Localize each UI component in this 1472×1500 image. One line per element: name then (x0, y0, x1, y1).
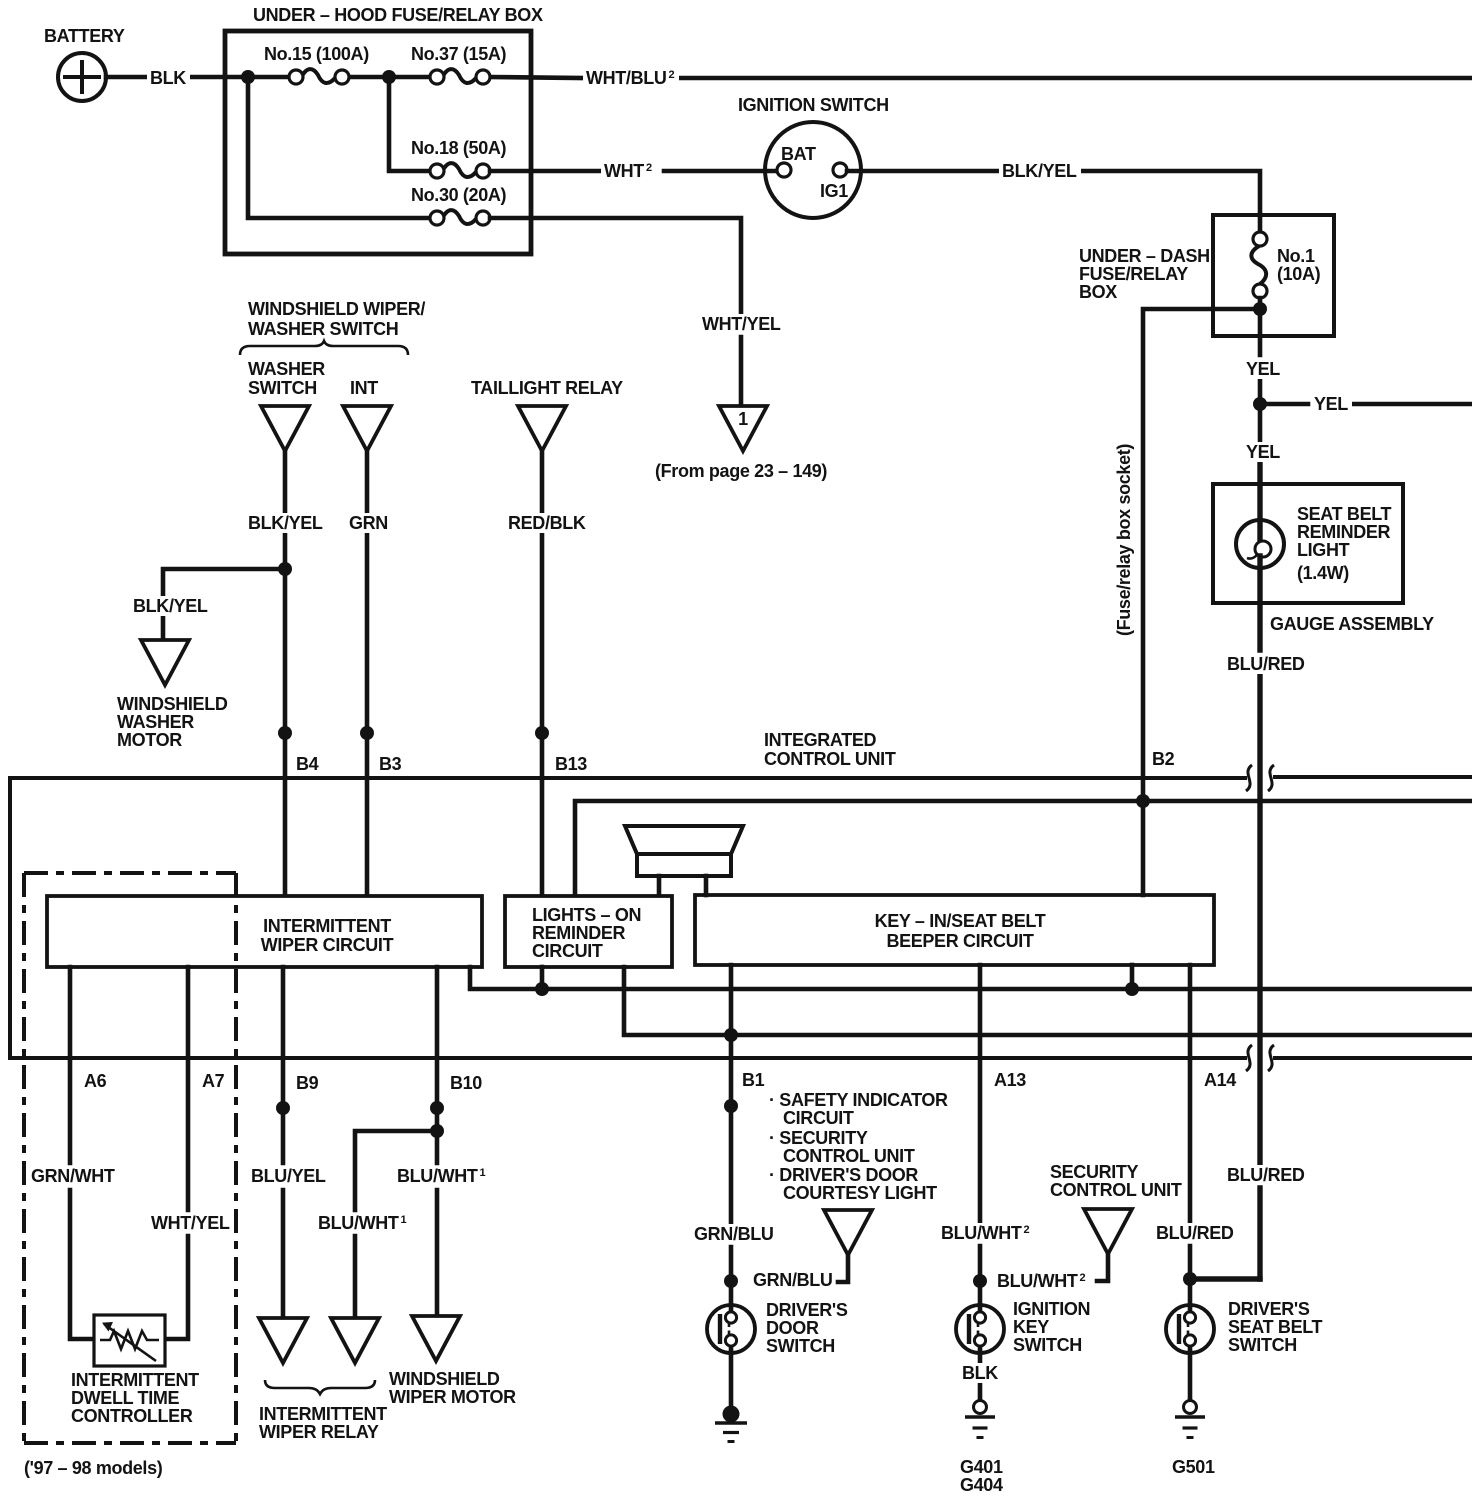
svg-text:WIPER MOTOR: WIPER MOTOR (389, 1387, 516, 1407)
svg-text:WIPER RELAY: WIPER RELAY (259, 1422, 379, 1442)
svg-text:G501: G501 (1172, 1457, 1215, 1477)
svg-text:YEL: YEL (1314, 394, 1348, 414)
svg-text:GRN/BLU: GRN/BLU (753, 1270, 833, 1290)
svg-text:(1.4W): (1.4W) (1297, 563, 1349, 583)
svg-text:YEL: YEL (1246, 359, 1280, 379)
svg-text:A13: A13 (994, 1070, 1026, 1090)
svg-text:IGNITION SWITCH: IGNITION SWITCH (738, 95, 889, 115)
svg-text:BLK/YEL: BLK/YEL (248, 513, 323, 533)
svg-text:IG1: IG1 (820, 181, 848, 201)
svg-text:BLU/WHT1: BLU/WHT1 (397, 1166, 486, 1186)
svg-text:TAILLIGHT RELAY: TAILLIGHT RELAY (471, 378, 623, 398)
svg-text:CONTROL UNIT: CONTROL UNIT (783, 1146, 915, 1166)
svg-text:SECURITY: SECURITY (1050, 1162, 1139, 1182)
svg-text:BLU/RED: BLU/RED (1156, 1223, 1234, 1243)
svg-text:WINDSHIELD: WINDSHIELD (117, 694, 228, 714)
svg-text:BLU/RED: BLU/RED (1227, 1165, 1305, 1185)
svg-text:WHT/YEL: WHT/YEL (151, 1213, 230, 1233)
svg-text:SEAT BELT: SEAT BELT (1297, 504, 1392, 524)
svg-text:WASHER: WASHER (248, 359, 325, 379)
svg-text:UNDER – DASH: UNDER – DASH (1079, 246, 1210, 266)
svg-text:BLK: BLK (150, 68, 186, 88)
svg-text:B4: B4 (296, 754, 319, 774)
svg-text:CIRCUIT: CIRCUIT (783, 1108, 854, 1128)
svg-text:FUSE/RELAY: FUSE/RELAY (1079, 264, 1188, 284)
svg-text:CONTROL UNIT: CONTROL UNIT (1050, 1180, 1182, 1200)
svg-text:BOX: BOX (1079, 282, 1117, 302)
svg-text:DOOR: DOOR (766, 1318, 819, 1338)
svg-text:WIPER CIRCUIT: WIPER CIRCUIT (261, 935, 394, 955)
svg-text:CONTROLLER: CONTROLLER (71, 1406, 193, 1426)
svg-text:INTERMITTENT: INTERMITTENT (259, 1404, 387, 1424)
svg-text:B10: B10 (450, 1073, 482, 1093)
svg-text:RED/BLK: RED/BLK (508, 513, 586, 533)
svg-text:REMINDER: REMINDER (1297, 522, 1391, 542)
svg-text:(From page 23 – 149): (From page 23 – 149) (655, 461, 827, 481)
svg-text:GRN/WHT: GRN/WHT (31, 1166, 115, 1186)
svg-text:BLU/RED: BLU/RED (1227, 654, 1305, 674)
svg-text:KEY – IN/SEAT BELT: KEY – IN/SEAT BELT (875, 911, 1046, 931)
svg-text:BLU/WHT2: BLU/WHT2 (997, 1271, 1086, 1291)
svg-text:DRIVER'S: DRIVER'S (766, 1300, 848, 1320)
svg-text:GRN/BLU: GRN/BLU (694, 1224, 774, 1244)
svg-text:YEL: YEL (1246, 442, 1280, 462)
svg-text:BATTERY: BATTERY (44, 26, 125, 46)
svg-text:MOTOR: MOTOR (117, 730, 182, 750)
svg-text:WHT/BLU2: WHT/BLU2 (586, 68, 675, 88)
svg-text:KEY: KEY (1013, 1317, 1049, 1337)
svg-text:INT: INT (350, 378, 378, 398)
svg-text:B13: B13 (555, 754, 587, 774)
svg-text:G401: G401 (960, 1457, 1003, 1477)
svg-text:BAT: BAT (781, 144, 816, 164)
svg-text:REMINDER: REMINDER (532, 923, 626, 943)
svg-text:G404: G404 (960, 1475, 1003, 1495)
svg-text:A7: A7 (202, 1071, 225, 1091)
svg-text:LIGHT: LIGHT (1297, 540, 1350, 560)
svg-text:DRIVER'S: DRIVER'S (1228, 1299, 1310, 1319)
svg-text:CONTROL UNIT: CONTROL UNIT (764, 749, 896, 769)
svg-text:WASHER SWITCH: WASHER SWITCH (248, 319, 398, 339)
svg-text:DWELL TIME: DWELL TIME (71, 1388, 180, 1408)
svg-text:· DRIVER'S DOOR: · DRIVER'S DOOR (769, 1165, 918, 1185)
svg-text:No.30 (20A): No.30 (20A) (411, 185, 507, 205)
svg-text:No.1: No.1 (1277, 246, 1315, 266)
svg-text:COURTESY LIGHT: COURTESY LIGHT (783, 1183, 937, 1203)
svg-text:B1: B1 (742, 1070, 765, 1090)
svg-text:SWITCH: SWITCH (766, 1336, 835, 1356)
svg-text:BLU/YEL: BLU/YEL (251, 1166, 326, 1186)
svg-text:GRN: GRN (349, 513, 388, 533)
svg-text:WHT/YEL: WHT/YEL (702, 314, 781, 334)
svg-text:WINDSHIELD: WINDSHIELD (389, 1369, 500, 1389)
svg-text:· SECURITY: · SECURITY (769, 1128, 868, 1148)
svg-text:(Fuse/relay box socket): (Fuse/relay box socket) (1114, 444, 1134, 636)
svg-text:CIRCUIT: CIRCUIT (532, 941, 603, 961)
svg-text:B9: B9 (296, 1073, 319, 1093)
svg-text:SEAT BELT: SEAT BELT (1228, 1317, 1323, 1337)
svg-text:GAUGE ASSEMBLY: GAUGE ASSEMBLY (1270, 614, 1434, 634)
svg-text:INTERMITTENT: INTERMITTENT (71, 1370, 199, 1390)
svg-text:No.15 (100A): No.15 (100A) (264, 44, 369, 64)
svg-text:(10A): (10A) (1277, 264, 1321, 284)
svg-text:BEEPER CIRCUIT: BEEPER CIRCUIT (886, 931, 1033, 951)
svg-text:BLU/WHT1: BLU/WHT1 (318, 1213, 407, 1233)
svg-text:IGNITION: IGNITION (1013, 1299, 1090, 1319)
svg-text:BLK/YEL: BLK/YEL (133, 596, 208, 616)
svg-text:BLU/WHT2: BLU/WHT2 (941, 1223, 1030, 1243)
svg-text:No.18 (50A): No.18 (50A) (411, 138, 507, 158)
svg-text:BLK: BLK (962, 1363, 998, 1383)
svg-text:B3: B3 (379, 754, 402, 774)
svg-text:UNDER – HOOD FUSE/RELAY BOX: UNDER – HOOD FUSE/RELAY BOX (253, 5, 543, 25)
svg-text:B2: B2 (1152, 749, 1175, 769)
svg-text:WASHER: WASHER (117, 712, 194, 732)
svg-text:INTERMITTENT: INTERMITTENT (263, 916, 391, 936)
svg-text:· SAFETY INDICATOR: · SAFETY INDICATOR (769, 1090, 948, 1110)
svg-text:BLK/YEL: BLK/YEL (1002, 161, 1077, 181)
svg-text:INTEGRATED: INTEGRATED (764, 730, 877, 750)
svg-text:A14: A14 (1204, 1070, 1236, 1090)
svg-text:LIGHTS – ON: LIGHTS – ON (532, 905, 641, 925)
svg-text:SWITCH: SWITCH (248, 378, 317, 398)
svg-text:('97 – 98 models): ('97 – 98 models) (24, 1458, 163, 1478)
svg-text:No.37 (15A): No.37 (15A) (411, 44, 507, 64)
svg-text:A6: A6 (84, 1071, 107, 1091)
svg-text:SWITCH: SWITCH (1228, 1335, 1297, 1355)
svg-text:SWITCH: SWITCH (1013, 1335, 1082, 1355)
svg-text:WINDSHIELD WIPER/: WINDSHIELD WIPER/ (248, 299, 425, 319)
svg-text:1: 1 (738, 409, 748, 429)
